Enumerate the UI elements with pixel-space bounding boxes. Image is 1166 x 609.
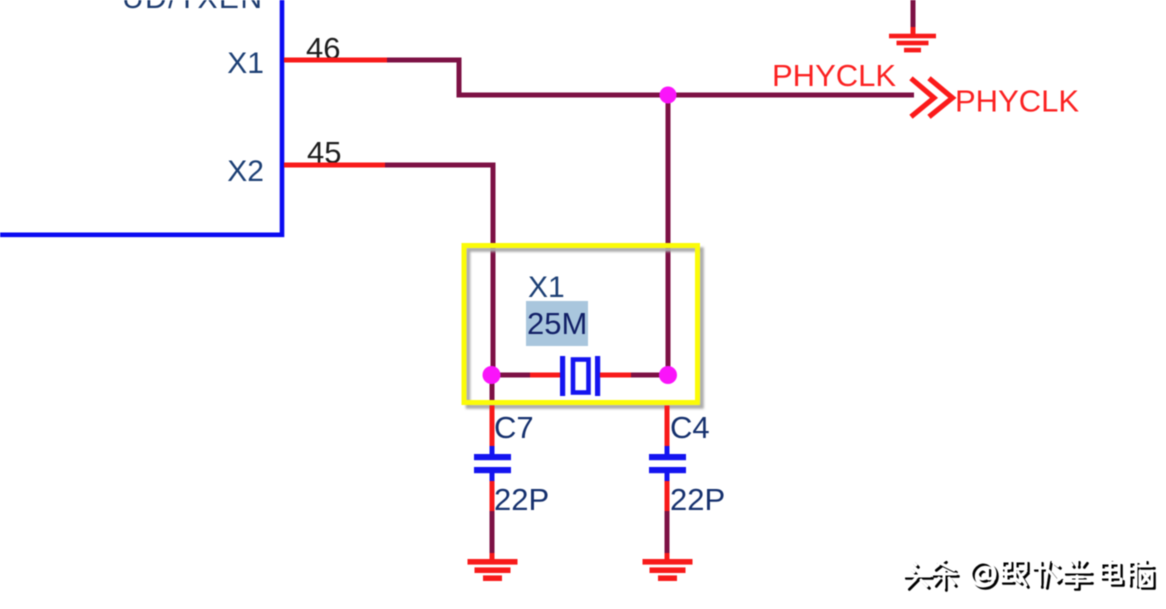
yellow highlight box shadow [468, 250, 702, 407]
capacitor C4 top plate [649, 454, 686, 460]
capacitor C4 top lead (blue) [665, 446, 670, 454]
crystal left node dot [483, 366, 501, 384]
crystal right lead wire [631, 373, 668, 378]
capacitor C4 top pin (red) [665, 406, 670, 449]
capacitor C7 top pin (red) [490, 406, 495, 449]
capacitor C4 bottom lead (blue) [665, 473, 670, 481]
wire C4 to ground [665, 511, 670, 553]
capacitor C7 bottom pin (red) [490, 481, 495, 511]
wire X1 to PHYCLK [387, 60, 914, 95]
wire junction down to crystal right [666, 95, 671, 375]
ground stub C4 (red) [665, 553, 670, 559]
capacitor C7 bottom lead (blue) [490, 473, 495, 481]
port symbol chevron 2 [929, 78, 952, 117]
junction dot node PHYCLK [660, 87, 677, 104]
ground stub top (red) [911, 27, 916, 34]
ground symbol C7 [468, 559, 518, 581]
ground symbol top [889, 34, 936, 53]
ground symbol C4 [643, 559, 693, 581]
svg-text:X1: X1 [528, 271, 565, 304]
capacitor C7 top lead (blue) [490, 446, 495, 454]
svg-text:C7: C7 [494, 410, 534, 445]
svg-text:PHYCLK: PHYCLK [955, 84, 1079, 119]
crystal left pin (red) [530, 373, 561, 378]
svg-text:22P: 22P [494, 482, 549, 517]
crystal left plate [560, 356, 565, 396]
ground stub C7 (red) [490, 553, 495, 559]
wire X2 to crystal left [385, 165, 493, 375]
wire C7 to ground [490, 511, 495, 553]
yellow highlight box [464, 246, 698, 403]
capacitor C4 bottom pin (red) [665, 481, 670, 511]
svg-text:C4: C4 [670, 410, 710, 445]
capacitor C4 bottom plate [649, 467, 686, 473]
svg-text:UD/TXEN: UD/TXEN [122, 0, 262, 15]
wire to top ground [911, 0, 916, 28]
svg-text:22P: 22P [670, 482, 725, 517]
svg-text:25M: 25M [527, 306, 587, 341]
capacitor C7 bottom plate [474, 467, 511, 473]
crystal right plate [595, 356, 600, 396]
wire crystal left down to C7 [490, 375, 495, 406]
pin X1 stub [284, 58, 387, 63]
IC U1 body (partial, clipped at left/top) [0, 0, 282, 235]
crystal right node dot [659, 366, 677, 384]
svg-text:PHYCLK: PHYCLK [772, 58, 896, 93]
crystal left lead wire [491, 373, 530, 378]
svg-text:X2: X2 [227, 155, 264, 188]
port symbol chevron 1 [911, 78, 934, 117]
capacitor C7 top plate [474, 454, 511, 460]
pin X2 stub [284, 163, 385, 168]
crystal body [573, 360, 589, 393]
crystal right pin (red) [600, 373, 631, 378]
svg-text:X1: X1 [227, 47, 264, 80]
crystal value highlight [526, 301, 588, 346]
